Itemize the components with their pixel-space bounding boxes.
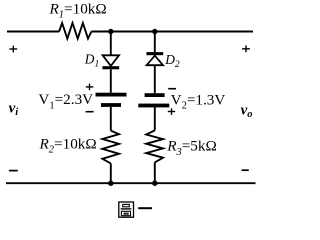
node top-left junction	[108, 29, 113, 34]
wire bottom	[6, 182, 256, 184]
svg-text:vo: vo	[241, 102, 253, 120]
diode D1	[102, 55, 119, 69]
node bottom-right junction	[152, 181, 157, 186]
resistor R3	[146, 130, 163, 162]
svg-text:D2: D2	[164, 52, 180, 70]
battery V1 plus mark	[86, 84, 94, 91]
wire V2 to R3	[154, 107, 156, 130]
port vi minus mark	[9, 170, 18, 172]
svg-text:R1=10kΩ: R1=10kΩ	[49, 0, 107, 20]
resistor R2	[102, 131, 119, 164]
diode D2	[146, 52, 163, 65]
wire V1 to R2	[110, 107, 112, 131]
node top-right junction	[152, 29, 157, 34]
node bottom-left junction	[108, 181, 113, 186]
wire top-right segment	[91, 31, 253, 33]
svg-text:D1: D1	[84, 51, 99, 69]
wire D1 cathode to V1	[110, 69, 112, 92]
wire R2 to bottom	[110, 163, 112, 183]
battery V1 minus mark	[86, 111, 94, 113]
svg-text:V2=1.3V: V2=1.3V	[171, 92, 226, 112]
svg-text:vi: vi	[9, 100, 19, 118]
svg-text:R3=5kΩ: R3=5kΩ	[166, 138, 217, 158]
battery V2 minus mark	[168, 88, 176, 90]
wire D2 cathode	[154, 32, 156, 53]
caption glyph 圖	[119, 202, 134, 217]
svg-text:V1=2.3V: V1=2.3V	[38, 91, 93, 111]
battery V2 plus mark	[168, 108, 175, 115]
caption glyph 一	[138, 207, 152, 209]
port vo plus mark	[242, 45, 250, 52]
battery V1	[96, 93, 127, 107]
resistor R1	[59, 23, 91, 39]
wire top-left segment	[7, 31, 59, 33]
wire R3 to bottom	[154, 162, 156, 183]
battery V2	[138, 93, 169, 107]
port vi plus mark	[9, 46, 17, 53]
wire D1 anode	[110, 32, 112, 56]
wire D2 anode to V2	[154, 65, 156, 93]
svg-text:R2=10kΩ: R2=10kΩ	[39, 135, 97, 155]
port vo minus mark	[242, 169, 249, 171]
